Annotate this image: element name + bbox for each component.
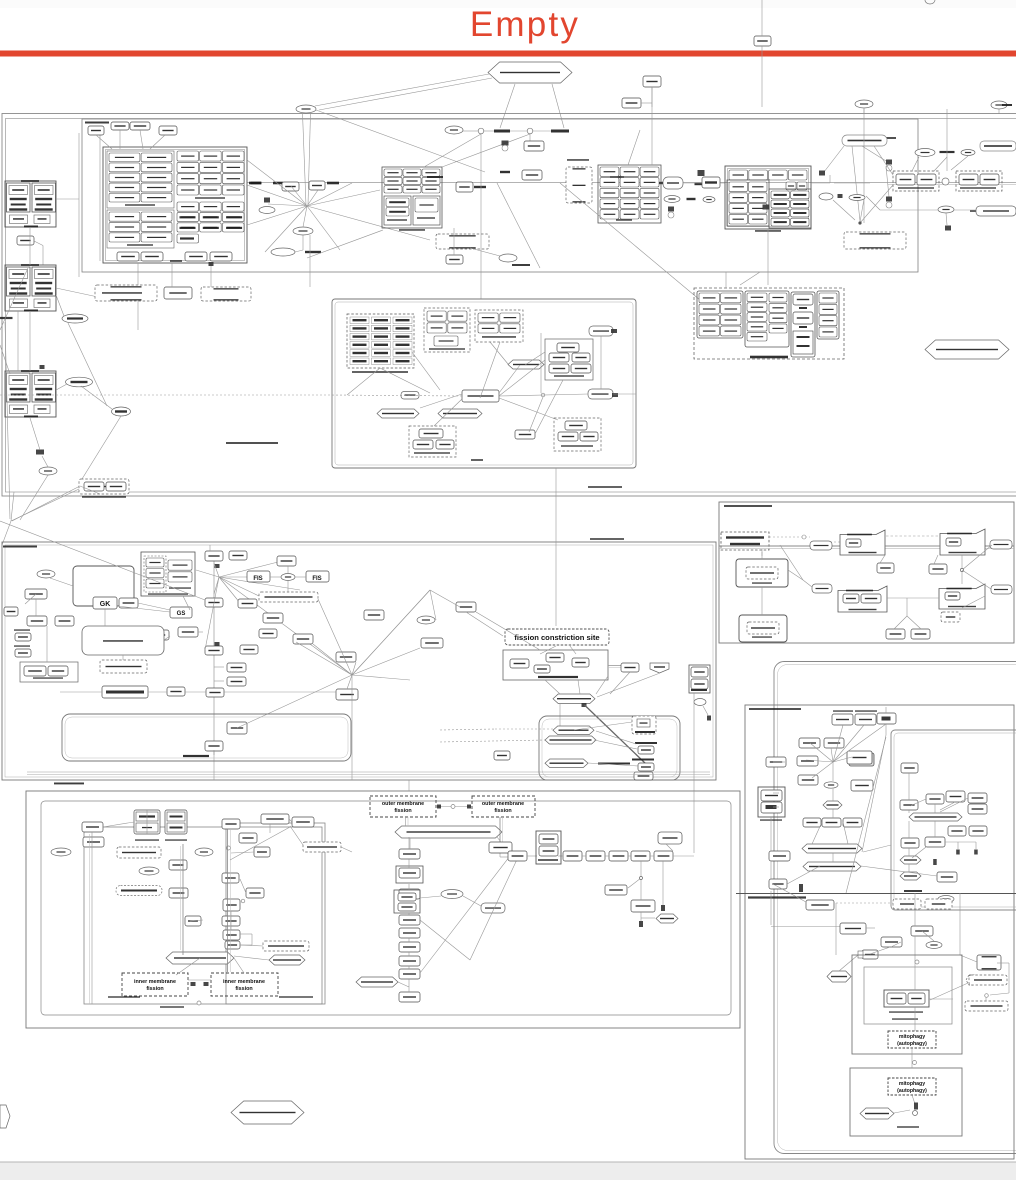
svg-text:inner membrane: inner membrane — [223, 979, 265, 985]
svg-text:mitophagy: mitophagy — [899, 1034, 925, 1040]
svg-text:outer membrane: outer membrane — [382, 801, 424, 807]
svg-text:fission: fission — [235, 986, 252, 992]
svg-text:fission: fission — [494, 808, 511, 814]
svg-text:fission: fission — [146, 986, 163, 992]
svg-text:mitophagy: mitophagy — [899, 1081, 925, 1087]
svg-text:FIS: FIS — [312, 576, 321, 582]
svg-text:fission constriction site: fission constriction site — [514, 633, 599, 642]
svg-text:(autophagy): (autophagy) — [897, 1088, 927, 1094]
svg-text:GS: GS — [177, 611, 186, 617]
svg-text:GK: GK — [100, 601, 111, 608]
svg-text:FIS: FIS — [253, 576, 262, 582]
svg-text:outer membrane: outer membrane — [482, 801, 524, 807]
svg-text:(autophagy): (autophagy) — [897, 1041, 927, 1047]
svg-text:Empty: Empty — [470, 5, 580, 44]
svg-text:fission: fission — [394, 808, 411, 814]
svg-text:inner membrane: inner membrane — [134, 979, 176, 985]
